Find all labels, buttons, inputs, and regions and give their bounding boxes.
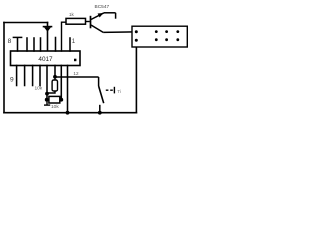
pin top 7 long wire to resistor R1 bbox=[62, 22, 67, 51]
node junction dot bbox=[45, 92, 49, 96]
resistor R3 10k horizontal bbox=[49, 96, 61, 110]
resistor R1 bbox=[66, 12, 90, 24]
pin bottom 3 bbox=[32, 66, 34, 86]
pin bottom 2 bbox=[24, 66, 26, 86]
pin bottom 7 long wire to R3 bbox=[60, 66, 62, 100]
wire node to switch bbox=[55, 76, 99, 78]
connector J1 bbox=[132, 26, 187, 47]
node junction dot on pin7 bbox=[53, 75, 57, 79]
wire left rail bbox=[3, 23, 5, 113]
contact dot A1 bbox=[135, 30, 138, 33]
svg-text:4017: 4017 bbox=[38, 56, 53, 63]
pin bottom 5 long wire bbox=[46, 66, 48, 100]
ground bbox=[44, 101, 50, 105]
svg-text:8: 8 bbox=[8, 38, 12, 45]
svg-text:Ti: Ti bbox=[117, 89, 121, 95]
resistor R2 10k vertical bbox=[35, 77, 58, 93]
svg-text:10k: 10k bbox=[51, 104, 59, 110]
node junction dot on rail bbox=[66, 111, 70, 115]
pin top 8 bbox=[69, 38, 71, 51]
svg-text:BC547: BC547 bbox=[95, 4, 110, 10]
pin bottom 4 bbox=[39, 66, 41, 86]
svg-text:1: 1 bbox=[72, 38, 76, 45]
pin top 2 bbox=[26, 38, 28, 51]
pin1 mark on U1 bbox=[74, 59, 76, 62]
node junction dot bbox=[45, 98, 49, 102]
wire bottom rail bbox=[4, 112, 136, 114]
contact dot C2 bbox=[165, 38, 168, 41]
contact dot B2 bbox=[155, 38, 158, 41]
pin top 3 bbox=[33, 38, 35, 51]
contact dot C1 bbox=[165, 30, 168, 33]
IC U1 4017 bbox=[11, 51, 81, 66]
pin bottom 6 to node bbox=[54, 66, 56, 78]
contact dot A2 bbox=[135, 39, 138, 42]
wire right riser to connector bbox=[135, 40, 137, 113]
contact dot D1 bbox=[176, 30, 179, 33]
svg-text:9: 9 bbox=[10, 77, 14, 84]
node junction dot bbox=[59, 98, 63, 102]
svg-text:12: 12 bbox=[73, 71, 79, 76]
transistor Q1 BC547 bbox=[91, 13, 116, 33]
svg-text:10k: 10k bbox=[35, 86, 43, 92]
pin top 4 bbox=[40, 38, 42, 51]
switch S1 bbox=[99, 77, 115, 113]
pin top 1 (with plate bar) bbox=[17, 38, 19, 51]
wire top rail bbox=[4, 22, 48, 24]
svg-text:1k: 1k bbox=[69, 12, 75, 17]
node junction dot switch to rail bbox=[98, 111, 102, 115]
pin bottom 8 long wire to rail bbox=[67, 66, 69, 113]
diode D1 bbox=[44, 23, 52, 52]
contact dot B1 bbox=[155, 30, 158, 33]
contact dot D2 bbox=[176, 38, 179, 41]
pin top 6 bbox=[55, 38, 57, 52]
wire collector to connector bbox=[103, 31, 136, 34]
pin bottom 1 bbox=[16, 66, 18, 86]
